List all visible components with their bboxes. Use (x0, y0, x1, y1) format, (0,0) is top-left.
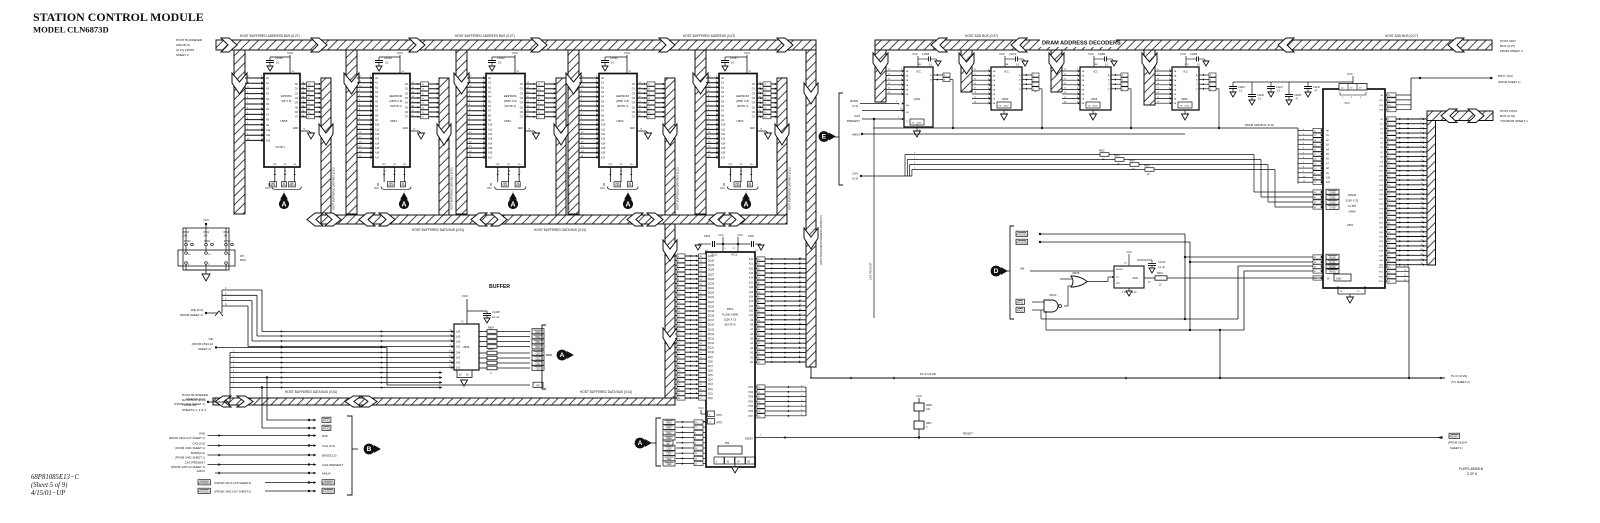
svg-text:CK: CK (1116, 277, 1120, 279)
svg-text:DQ7: DQ7 (708, 366, 713, 368)
svg-text:DQ1: DQ1 (708, 393, 713, 395)
svg-text:U654: U654 (736, 119, 744, 123)
svg-text:PD3: PD3 (749, 397, 754, 399)
svg-text:A13: A13 (721, 138, 726, 141)
svg-text:A13: A13 (488, 138, 493, 141)
svg-text:R512: R512 (204, 232, 210, 234)
svg-text:A21: A21 (749, 263, 754, 266)
svg-text:HOST BUFFERED ADDRESS (0:27): HOST BUFFERED ADDRESS (0:27) (683, 34, 735, 38)
svg-text:31: 31 (611, 170, 613, 172)
svg-text:B: B (367, 446, 372, 453)
svg-text:0.1: 0.1 (498, 61, 502, 65)
svg-text:RASDD2: RASDD2 (199, 490, 211, 494)
svg-text:0.1: 0.1 (385, 61, 389, 65)
svg-text:DQ24: DQ24 (708, 288, 715, 290)
svg-text:RESET: RESET (745, 438, 754, 441)
svg-text:A15: A15 (721, 147, 726, 150)
svg-text:4/15/01−UP: 4/15/01−UP (31, 490, 65, 497)
svg-text:TO/FROM SHEET 1: TO/FROM SHEET 1 (1500, 119, 1528, 123)
svg-text:DQ16: DQ16 (708, 325, 715, 327)
svg-text:DQ23: DQ23 (708, 293, 715, 295)
svg-text:VPP: VPP (496, 164, 501, 166)
svg-text:CAS PRESENT: CAS PRESENT (870, 262, 873, 280)
svg-text:(NOTE 4): (NOTE 4) (390, 104, 402, 108)
svg-text:R511: R511 (224, 232, 230, 234)
svg-text:BUFFER: BUFFER (489, 284, 510, 290)
svg-text:OE: OE (401, 184, 405, 187)
svg-text:VCC: VCC (600, 188, 605, 190)
svg-text:PRESENT: PRESENT (847, 119, 861, 123)
svg-text:AMUX: AMUX (322, 471, 331, 475)
svg-text:DQ12: DQ12 (708, 343, 715, 345)
svg-text:R/W: R/W (199, 431, 205, 435)
svg-text:C1034: C1034 (384, 56, 392, 60)
svg-text:(FROM SHEET 1): (FROM SHEET 1) (180, 313, 203, 317)
svg-text:VCC: VCC (698, 406, 704, 410)
svg-text:(256K X 8): (256K X 8) (736, 99, 749, 103)
svg-text:EEPROM: EEPROM (504, 94, 517, 98)
svg-text:A11: A11 (266, 134, 271, 137)
svg-text:A19: A19 (749, 272, 754, 275)
svg-text:VCC: VCC (720, 188, 725, 190)
svg-text:RASDD2: RASDD2 (323, 490, 335, 494)
svg-text:DQ25: DQ25 (708, 284, 715, 286)
svg-text:1A4: 1A4 (456, 331, 461, 334)
svg-text:A22: A22 (749, 258, 754, 261)
svg-text:VCC: VCC (744, 51, 751, 55)
svg-text:A17: A17 (375, 156, 380, 159)
svg-text:24: 24 (621, 170, 623, 172)
svg-text:HOST BUFFERED: HOST BUFFERED (176, 38, 203, 42)
svg-text:A16: A16 (488, 152, 493, 155)
svg-text:C1208: C1208 (492, 310, 500, 314)
svg-text:DQ5: DQ5 (708, 375, 713, 377)
svg-text:VCC: VCC (1093, 72, 1098, 74)
svg-text:VCC: VCC (999, 52, 1005, 56)
svg-text:C1067: C1067 (730, 56, 738, 60)
svg-text:(NOTE 4): (NOTE 4) (504, 104, 516, 108)
svg-text:DQ28: DQ28 (708, 270, 715, 272)
svg-text:R608: R608 (926, 404, 932, 407)
svg-text:HOST BUFFERED DATA BUS (0:31): HOST BUFFERED DATA BUS (0:31) (788, 167, 792, 210)
svg-text:2: 2 (405, 171, 407, 172)
svg-text:2: 2 (752, 171, 754, 172)
svg-text:C1013: C1013 (1158, 261, 1166, 264)
svg-text:HOST BUFFERED DATA BUS (0:31): HOST BUFFERED DATA BUS (0:31) (285, 390, 337, 394)
svg-text:VPP: VPP (728, 164, 733, 166)
svg-text:VPP1: VPP1 (716, 414, 723, 417)
svg-text:DQ27: DQ27 (708, 274, 715, 276)
svg-text:GND: GND (403, 127, 409, 130)
svg-text:HOST BUFFERED ADDRESS BUS (0:2: HOST BUFFERED ADDRESS BUS (0:27) (240, 34, 300, 38)
svg-text:A15: A15 (601, 147, 606, 150)
svg-text:R602: R602 (1099, 151, 1105, 153)
svg-text:(FROM U4U1-C18 SHEET1): (FROM U4U1-C18 SHEET1) (214, 481, 251, 485)
svg-text:BUS (0:27): BUS (0:27) (1500, 44, 1515, 48)
svg-text:VCC: VCC (287, 51, 294, 55)
svg-text:VPP: VPP (608, 164, 613, 166)
svg-text:(FROM U401-H17 SHEET1): (FROM U401-H17 SHEET1) (214, 489, 250, 493)
svg-text:DRAM: DRAM (1348, 193, 1357, 197)
svg-text:VCC: VCC (1088, 52, 1094, 56)
svg-text:10K: 10K (926, 408, 931, 411)
svg-text:U512A: U512A (1049, 294, 1057, 297)
svg-text:DQ8: DQ8 (708, 361, 713, 363)
svg-text:(FROM U401 SHEET 1): (FROM U401 SHEET 1) (175, 456, 205, 460)
svg-text:C1050: C1050 (610, 56, 618, 60)
svg-text:PD7: PD7 (749, 416, 754, 418)
svg-text:DQ29: DQ29 (708, 265, 715, 267)
svg-text:WE0: WE0 (666, 437, 672, 440)
svg-text:(2:3): (2:3) (852, 104, 858, 108)
svg-text:R658: R658 (488, 348, 494, 351)
svg-text:SHEET 2): SHEET 2) (198, 347, 211, 351)
svg-text:E: E (822, 134, 827, 141)
svg-text:CE0: CE0 (735, 184, 740, 187)
svg-text:U402: U402 (914, 97, 921, 101)
svg-text:HOST ADD BUS (0:27): HOST ADD BUS (0:27) (1385, 34, 1418, 38)
svg-text:VCC: VCC (1183, 72, 1188, 74)
svg-text:A11: A11 (375, 128, 380, 131)
svg-text:A13: A13 (749, 300, 754, 303)
svg-text:A12: A12 (601, 133, 606, 136)
svg-text:31: 31 (731, 170, 733, 172)
svg-text:(0:27) FROM: (0:27) FROM (176, 48, 194, 52)
svg-text:BADD(2:3): BADD(2:3) (191, 451, 205, 455)
svg-text:DQ2: DQ2 (708, 389, 713, 391)
svg-text:0.1: 0.1 (611, 61, 615, 65)
svg-text:RASDD0: RASDD0 (1017, 241, 1028, 245)
svg-text:CAS PRESENT: CAS PRESENT (185, 460, 206, 464)
svg-text:RASDD1: RASDD1 (1017, 233, 1028, 237)
svg-text:HOST BUFFERED DATA BUS (0:31): HOST BUFFERED DATA BUS (0:31) (567, 167, 571, 210)
svg-text:W501: W501 (204, 241, 211, 243)
svg-text:24: 24 (509, 170, 511, 172)
svg-text:31: 31 (384, 170, 386, 172)
svg-text:RAS3: RAS3 (1329, 271, 1336, 274)
svg-text:(NOTE 4): (NOTE 4) (724, 323, 735, 327)
svg-text:A15: A15 (375, 147, 380, 150)
svg-text:P1 IN (0:23): P1 IN (0:23) (1451, 374, 1467, 378)
svg-text:VPP: VPP (382, 164, 387, 166)
svg-text:PRTY (0:3): PRTY (0:3) (1498, 74, 1513, 78)
svg-text:CAS (0:3): CAS (0:3) (322, 444, 335, 448)
svg-text:C1080: C1080 (1098, 53, 1106, 56)
svg-text:A14: A14 (375, 142, 380, 145)
svg-text:BADD(2:3): BADD(2:3) (322, 453, 337, 457)
svg-text:PD4: PD4 (749, 401, 754, 403)
svg-text:U652: U652 (504, 119, 512, 123)
svg-text:C1072: C1072 (1009, 53, 1017, 56)
svg-text:WE1: WE1 (666, 432, 672, 435)
svg-text:C1086: C1086 (1190, 53, 1198, 56)
svg-text:24: 24 (395, 170, 397, 172)
svg-text:(FROM U401-G17 SHEET 1): (FROM U401-G17 SHEET 1) (169, 436, 205, 440)
svg-text:FLEPS‑48908‑B: FLEPS‑48908‑B (1459, 467, 1484, 471)
svg-text:(TO SHEET 2): (TO SHEET 2) (1451, 380, 1470, 384)
svg-text:2: 2 (295, 171, 297, 172)
svg-text:A15: A15 (488, 147, 493, 150)
svg-text:A: A (281, 202, 286, 209)
svg-text:HOST BUFFERED ADDRESS BUS(0:27: HOST BUFFERED ADDRESS BUS(0:27) (819, 215, 823, 265)
svg-text:(FROM U401 SHEET 1): (FROM U401 SHEET 1) (175, 446, 205, 450)
svg-text:DQ4: DQ4 (708, 380, 713, 382)
svg-text:A13: A13 (375, 138, 380, 141)
svg-text:VCC: VCC (916, 72, 921, 74)
svg-text:HOST BUFFERED DATA BUS (0:31): HOST BUFFERED DATA BUS (0:31) (580, 390, 632, 394)
svg-text:U651: U651 (390, 119, 398, 123)
svg-text:68P81085E13−C: 68P81085E13−C (31, 474, 79, 481)
svg-text:CAS (0:3): CAS (0:3) (192, 441, 205, 445)
svg-text:2A1: 2A1 (456, 367, 461, 370)
svg-text:AMUX: AMUX (852, 133, 860, 137)
svg-text:PD1: PD1 (749, 387, 754, 389)
svg-text:U808: U808 (463, 345, 470, 349)
svg-text:1A1: 1A1 (456, 346, 461, 349)
svg-text:RESET: RESET (1116, 269, 1124, 271)
svg-text:(256K X 8): (256K X 8) (616, 99, 629, 103)
svg-text:VPP2: VPP2 (716, 422, 723, 425)
svg-text:CE0: CE0 (388, 184, 393, 187)
svg-text:SHEET 2: SHEET 2 (176, 53, 189, 57)
svg-text:WE (0:3): WE (0:3) (191, 308, 203, 312)
svg-text:0.1 uF: 0.1 uF (492, 315, 500, 319)
svg-text:C1042: C1042 (497, 56, 505, 60)
svg-text:EEPROM: EEPROM (390, 94, 403, 98)
svg-text:RASDD1: RASDD1 (199, 481, 211, 485)
svg-text:CE0: CE0 (667, 448, 672, 451)
svg-text:A14: A14 (488, 142, 493, 145)
svg-text:OE: OE (516, 184, 520, 187)
svg-text:(256K X 8): (256K X 8) (504, 99, 517, 103)
svg-text:GND: GND (1004, 106, 1009, 108)
svg-text:GND: GND (1336, 277, 1342, 280)
svg-text:DQ6: DQ6 (708, 371, 713, 373)
svg-text:WN23: WN23 (224, 241, 231, 243)
svg-text:EEPROM: EEPROM (616, 94, 629, 98)
svg-text:R/W: R/W (322, 434, 328, 438)
svg-text:RESET: RESET (963, 432, 973, 436)
svg-text:R607: R607 (926, 422, 932, 425)
svg-text:A12: A12 (266, 139, 271, 142)
svg-text:VCC: VCC (916, 394, 922, 398)
svg-text:DRAM ADDRESS DECODERS: DRAM ADDRESS DECODERS (1042, 41, 1121, 47)
svg-text:A17: A17 (488, 156, 493, 159)
svg-text:U605: U605 (1181, 97, 1188, 101)
svg-text:U510B: U510B (1072, 272, 1080, 275)
svg-text:FROM SHEET 1: FROM SHEET 1 (1500, 49, 1523, 53)
svg-text:A17: A17 (749, 281, 754, 284)
svg-text:(FROM U518-4: (FROM U518-4 (1448, 441, 1468, 445)
svg-text:WE3: WE3 (666, 422, 672, 425)
svg-text:CAS PRESENT: CAS PRESENT (322, 463, 343, 467)
svg-text:CAS: CAS (854, 114, 860, 118)
svg-text:A: A (560, 352, 565, 359)
svg-text:SHEET 1): SHEET 1) (1450, 446, 1463, 450)
svg-text:24: 24 (741, 170, 743, 172)
svg-text:A12: A12 (488, 133, 493, 136)
svg-text:NC: NC (1148, 282, 1152, 284)
svg-text:R513: R513 (184, 232, 190, 234)
svg-text:A14: A14 (601, 142, 606, 145)
svg-text:CE0: CE0 (502, 184, 507, 187)
svg-text:GND: GND (1093, 106, 1098, 108)
svg-text:VCC: VCC (203, 218, 210, 222)
svg-text:OE: OE (748, 184, 752, 187)
svg-text:HOST BUFFERED ADDRESS BUS (0:2: HOST BUFFERED ADDRESS BUS (0:27) (455, 34, 515, 38)
svg-text:DQ19: DQ19 (708, 311, 715, 313)
svg-text:(FROM SHEET 1): (FROM SHEET 1) (1498, 80, 1521, 84)
svg-text:VCC2: VCC2 (731, 255, 738, 257)
svg-text:RASDD1: RASDD1 (323, 481, 335, 485)
svg-text:A17: A17 (721, 156, 726, 159)
svg-text:(Sheet 5 of 9): (Sheet 5 of 9) (31, 482, 68, 489)
svg-text:A: A (638, 440, 643, 447)
svg-text:DRAM ADD BUS (0:11): DRAM ADD BUS (0:11) (1245, 123, 1274, 127)
svg-text:A11: A11 (721, 128, 726, 131)
svg-text:DQ0: DQ0 (708, 398, 713, 400)
svg-text:A16: A16 (375, 152, 380, 155)
svg-text:WN03: WN03 (184, 241, 191, 243)
svg-text:A: A (743, 202, 748, 209)
svg-text:U651: U651 (1347, 223, 1354, 227)
svg-text:U603: U603 (1002, 97, 1009, 101)
svg-text:RAS2: RAS2 (323, 427, 331, 431)
svg-text:HOST BUFFERED DATA BUS (0:31): HOST BUFFERED DATA BUS (0:31) (534, 228, 586, 232)
svg-text:VCC: VCC (512, 51, 519, 55)
svg-text:STATION CONTROL MODULE: STATION CONTROL MODULE (33, 10, 204, 24)
svg-text:A: A (401, 202, 406, 209)
svg-text:DQ22: DQ22 (708, 297, 715, 299)
svg-text:A15: A15 (749, 291, 754, 294)
svg-text:HOST BUFFERED DATA BUS (0:31): HOST BUFFERED DATA BUS (0:31) (676, 167, 680, 210)
svg-text:MODEL CLN6873D: MODEL CLN6873D (33, 25, 109, 35)
svg-text:3 OF 6: 3 OF 6 (1467, 472, 1477, 476)
svg-text:A10: A10 (749, 314, 754, 317)
svg-text:P651: P651 (727, 307, 734, 311)
svg-text:2A2: 2A2 (456, 362, 461, 365)
svg-text:PD5: PD5 (749, 406, 754, 408)
svg-text:DQ26: DQ26 (708, 279, 715, 281)
svg-text:VCC: VCC (1344, 102, 1349, 105)
svg-text:GND: GND (750, 127, 756, 130)
svg-text:DQ10: DQ10 (708, 352, 715, 354)
svg-text:512K X 32: 512K X 32 (724, 318, 737, 322)
svg-text:31: 31 (498, 170, 500, 172)
svg-text:31: 31 (275, 170, 277, 172)
svg-text:HOST ADD BUS (0:27): HOST ADD BUS (0:27) (965, 34, 998, 38)
svg-text:A16: A16 (601, 152, 606, 155)
svg-text:A12: A12 (721, 133, 726, 136)
svg-text:C1064: C1064 (275, 56, 283, 60)
svg-text:WE3: WE3 (289, 184, 295, 187)
svg-text:VCC: VCC (718, 233, 724, 237)
svg-text:VCC: VCC (487, 188, 492, 190)
svg-text:BADD: BADD (850, 99, 858, 103)
svg-text:0.1 uF: 0.1 uF (1158, 266, 1166, 269)
svg-text:A18: A18 (749, 277, 754, 280)
svg-text:GND: GND (518, 127, 524, 130)
svg-text:CE/RAS (0:7): CE/RAS (0:7) (186, 397, 205, 401)
svg-text:A17: A17 (601, 156, 606, 159)
svg-text:A11: A11 (601, 128, 606, 131)
svg-text:U653: U653 (616, 119, 624, 123)
svg-text:HOST ADD: HOST ADD (1500, 39, 1517, 43)
svg-text:GND: GND (630, 127, 636, 130)
svg-text:(FROM U401 SHEET 1): (FROM U401 SHEET 1) (174, 402, 205, 406)
svg-text:CE0: CE0 (615, 184, 620, 187)
svg-text:D: D (994, 268, 999, 275)
svg-text:P1 IN (0:23): P1 IN (0:23) (920, 372, 936, 376)
svg-text:A10: A10 (721, 124, 726, 127)
svg-text:R603: R603 (1114, 156, 1120, 158)
svg-text:HOST BUFFERED DATA BUS (0:31): HOST BUFFERED DATA BUS (0:31) (412, 228, 464, 232)
svg-text:BUS (0:31): BUS (0:31) (1500, 114, 1515, 118)
svg-text:A20: A20 (749, 267, 754, 270)
svg-text:U520: U520 (1132, 277, 1138, 280)
svg-text:VCC: VCC (397, 51, 404, 55)
svg-text:DQ3: DQ3 (708, 384, 713, 386)
svg-text:DQ14: DQ14 (708, 334, 715, 336)
svg-text:DQ13: DQ13 (708, 338, 715, 340)
svg-text:HOST BUFFERED DATA BUS (0:31): HOST BUFFERED DATA BUS (0:31) (332, 167, 336, 210)
svg-text:OE: OE (209, 337, 213, 341)
svg-text:0.1: 0.1 (731, 61, 735, 65)
svg-text:(FROM U523-24: (FROM U523-24 (192, 342, 214, 346)
svg-text:OE: OE (666, 442, 670, 445)
svg-text:A10: A10 (601, 124, 606, 127)
svg-text:2A3: 2A3 (456, 357, 461, 360)
svg-text:DQ31: DQ31 (708, 256, 715, 258)
svg-text:R604: R604 (1129, 161, 1135, 163)
svg-text:WE2: WE2 (666, 427, 672, 430)
svg-text:DQ30: DQ30 (708, 261, 715, 263)
svg-text:5N01: 5N01 (240, 259, 247, 262)
svg-text:0.1: 0.1 (276, 61, 280, 65)
svg-text:1A2: 1A2 (456, 341, 461, 344)
svg-text:2: 2 (519, 171, 521, 172)
svg-text:A10: A10 (488, 124, 493, 127)
svg-text:A12: A12 (749, 305, 754, 308)
svg-text:WE0: WE0 (535, 346, 541, 349)
svg-text:A10: A10 (1326, 177, 1331, 180)
svg-text:A16: A16 (749, 286, 754, 289)
svg-text:VCC: VCC (462, 294, 469, 298)
svg-text:FLASH SIMM: FLASH SIMM (722, 313, 738, 317)
svg-text:A/B: A/B (1020, 267, 1025, 271)
svg-text:A10: A10 (266, 129, 271, 132)
svg-text:A12: A12 (375, 133, 380, 136)
svg-text:R654: R654 (488, 327, 494, 330)
svg-text:GND: GND (1185, 106, 1190, 108)
svg-text:DQ9: DQ9 (708, 357, 713, 359)
svg-text:VCC: VCC (624, 51, 631, 55)
svg-text:A14: A14 (721, 142, 726, 145)
svg-text:A: A (625, 202, 630, 209)
svg-text:2A4: 2A4 (456, 352, 461, 355)
svg-text:CE1: CE1 (667, 453, 672, 456)
svg-text:GND: GND (293, 127, 299, 130)
svg-text:VCC: VCC (374, 188, 379, 190)
svg-text:DQ18: DQ18 (708, 316, 715, 318)
svg-text:CAS3: CAS3 (1329, 207, 1336, 210)
svg-text:CE3: CE3 (667, 463, 672, 466)
svg-text:A14: A14 (749, 295, 754, 298)
svg-text:2: 2 (632, 171, 634, 172)
svg-text:RAS2: RAS2 (1017, 309, 1024, 313)
svg-text:(0:3): (0:3) (852, 177, 858, 181)
svg-text:AMUX: AMUX (197, 469, 205, 473)
